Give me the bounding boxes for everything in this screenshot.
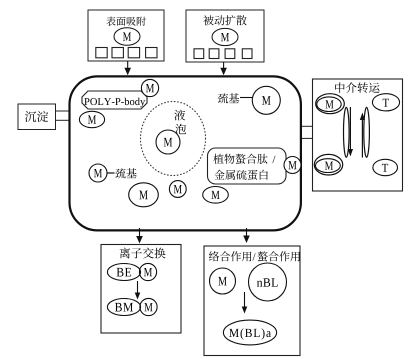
metal ion M ellipse (surface adsorption) xyxy=(114,28,140,46)
metal ion M ellipse (bottom large) xyxy=(129,183,159,207)
label POLY-P-body xyxy=(84,98,145,108)
leader dash xyxy=(107,172,115,174)
vacuole (dotted ellipse) xyxy=(141,102,206,176)
arrow: surface adsorption into cell xyxy=(124,61,131,75)
label 表面吸附 xyxy=(106,17,145,26)
metal ion M circle in vacuole xyxy=(156,130,180,154)
M double ellipse (bottom left) xyxy=(314,154,342,175)
box: passive diffusion (被动扩散) xyxy=(186,10,264,62)
diffusion site squares xyxy=(194,49,252,59)
metal ion M ellipse (passive diffusion) xyxy=(212,28,238,45)
box: phytochelatin/metallothionein xyxy=(208,148,287,184)
arrow: cell to chelation box xyxy=(243,228,250,243)
metal ion M circle near POLY-P-body xyxy=(141,79,158,96)
label 巯基 (left) xyxy=(115,168,136,178)
metal ion M ellipse (bottom right) xyxy=(203,187,229,204)
transport channel right (ellipse) xyxy=(364,107,370,157)
adsorption site squares xyxy=(96,48,157,58)
M double ellipse (top left) xyxy=(316,94,345,114)
label 液泡 (vertical) xyxy=(174,110,186,135)
label 中介转运 xyxy=(335,82,379,93)
POLY-P-body hexagon xyxy=(82,91,147,109)
label 金属硫蛋白 xyxy=(214,170,268,180)
nBL circle xyxy=(249,263,287,301)
box: surface adsorption (表面吸附) xyxy=(88,10,164,61)
BM ellipse xyxy=(107,299,140,316)
M circle (chelation) xyxy=(210,268,236,294)
label 沉淀 xyxy=(25,111,48,122)
wire: cell to transport box (double line) xyxy=(302,126,313,138)
wire: precipitate to cell (double line) xyxy=(56,111,70,120)
metal ion M circle (bottom small) xyxy=(169,181,186,198)
BE ellipse xyxy=(107,264,140,281)
metal ion M circle on membrane (right) xyxy=(284,157,301,174)
box: mediated transport (中介转运) xyxy=(313,79,403,191)
box: precipitation (沉淀) xyxy=(18,104,56,130)
leader line 巯基 to M xyxy=(240,97,253,99)
label 巯基 (top) xyxy=(218,93,239,103)
M circle next to BM xyxy=(140,298,157,315)
T ellipse (bottom right) xyxy=(373,159,398,175)
T ellipse (top right) xyxy=(372,94,399,111)
arrow: cell to ion exchange box xyxy=(136,228,143,244)
metal ion M ellipse below POLY-P-body xyxy=(79,111,104,127)
label 络合作用/螯合作用 xyxy=(209,251,300,261)
M circle next to BE xyxy=(139,263,156,280)
metal ion M circle (bound to sulfhydryl, left) xyxy=(89,164,107,182)
box: ion exchange (离子交换) xyxy=(101,245,181,334)
box: complexation/chelation (络合作用/螯合作用) xyxy=(204,246,300,356)
label 植物螯合肽 / xyxy=(213,154,275,164)
M(BL)a ellipse xyxy=(223,320,276,345)
label 被动扩散 xyxy=(203,15,246,25)
metal ion M circle (bound to sulfhydryl, top) xyxy=(252,86,280,114)
transport channel left (ellipse) xyxy=(344,107,350,157)
arrow: M + nBL to M(BL)a xyxy=(242,292,248,314)
arrow: BE+M to BM+M xyxy=(135,281,141,300)
arrow: passive diffusion into cell xyxy=(220,62,227,75)
cell membrane (rounded rectangle) xyxy=(70,76,301,230)
arrow down through left channel xyxy=(348,107,353,157)
arrow up through right channel xyxy=(360,113,365,158)
label 离子交换 xyxy=(120,248,166,259)
